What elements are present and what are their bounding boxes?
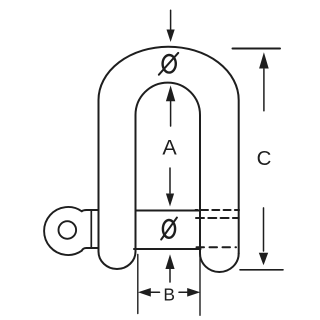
- dimension B right arrow: [179, 288, 200, 297]
- dimension arrow down at bow top (pointer to bow diameter): [167, 10, 175, 42]
- dimension A lower arrow (points down at pin): [166, 168, 174, 207]
- shackle bow inner outline: [136, 83, 201, 254]
- dimension C bottom reference line: [240, 269, 283, 271]
- dimension B left extension line: [137, 255, 139, 314]
- left leg rounded bottom: [99, 252, 136, 270]
- pin hidden line thread (dashed through right leg): [196, 217, 239, 219]
- dimension C top reference line: [233, 48, 281, 50]
- pin diameter arrow (points up at pin bottom edge): [165, 254, 174, 282]
- pin hidden line upper (dashed through right leg): [196, 209, 198, 211]
- shackle bow outer outline: [99, 47, 239, 254]
- pin head hole: [59, 221, 77, 239]
- pin head collar line: [90, 210, 92, 248]
- pin head outline: [44, 207, 98, 255]
- svg-text:C: C: [257, 148, 272, 170]
- screw pin bottom edge (visible between legs): [134, 248, 201, 250]
- diameter symbol at bow top: [159, 53, 178, 75]
- dimension C upper arrow (points up): [259, 52, 269, 111]
- svg-text:A: A: [162, 136, 177, 160]
- right leg rounded bottom: [200, 254, 239, 272]
- screw pin top edge (visible between legs): [136, 210, 201, 212]
- pin hidden line lower (dashed through right leg): [197, 246, 237, 248]
- svg-text:B: B: [163, 284, 175, 304]
- dimension B right extension line: [199, 250, 201, 315]
- dimension A upper arrow (points up at inner top): [166, 85, 175, 126]
- dimension C lower arrow (points down): [259, 208, 268, 265]
- dimension B left arrow: [138, 288, 160, 297]
- diameter symbol on pin: [161, 218, 177, 240]
